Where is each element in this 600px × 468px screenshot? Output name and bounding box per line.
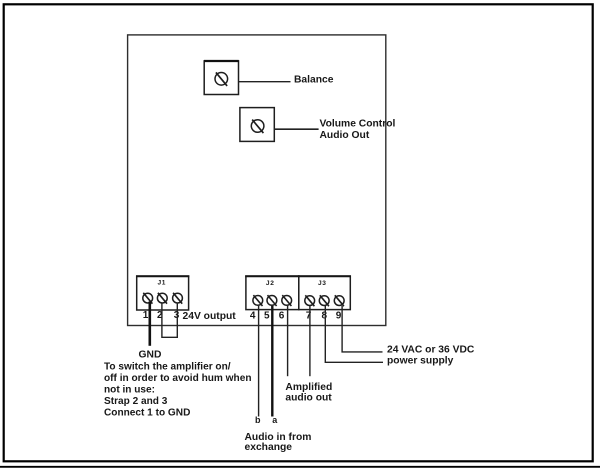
wire GND from terminal 1 — [149, 302, 152, 346]
potentiometer Balance — [204, 61, 239, 95]
terminal 1 — [143, 293, 153, 304]
svg-text:1: 1 — [143, 310, 149, 321]
svg-text:J2: J2 — [266, 280, 275, 287]
terminal block J2 — [246, 276, 299, 310]
svg-text:Strap 2 and 3: Strap 2 and 3 — [104, 396, 168, 407]
note text — [104, 361, 251, 418]
svg-text:7: 7 — [306, 311, 312, 322]
svg-text:GND: GND — [139, 349, 162, 360]
svg-text:24 VAC or 36 VDC: 24 VAC or 36 VDC — [387, 345, 475, 356]
svg-text:Balance: Balance — [294, 75, 334, 86]
svg-text:power supply: power supply — [387, 355, 454, 366]
wire from terminal 4 (b) — [258, 306, 260, 417]
bottom line — [0, 466, 600, 468]
svg-text:8: 8 — [322, 311, 328, 322]
svg-text:Connect 1 to GND: Connect 1 to GND — [104, 408, 190, 419]
svg-text:4: 4 — [250, 311, 256, 322]
svg-text:5: 5 — [264, 311, 270, 322]
terminal 4 — [253, 295, 263, 306]
wire from terminal 6 — [287, 306, 289, 377]
svg-text:Audio Out: Audio Out — [320, 130, 370, 141]
terminal 9 — [334, 295, 344, 306]
svg-text:J1: J1 — [158, 280, 167, 287]
svg-text:9: 9 — [336, 311, 342, 322]
svg-text:Volume Control: Volume Control — [320, 119, 396, 130]
wire from terminal 9 — [342, 306, 382, 352]
terminal 8 — [319, 295, 329, 306]
svg-text:off in order to avoid hum when: off in order to avoid hum when — [104, 373, 251, 384]
svg-text:b: b — [255, 415, 261, 425]
terminal 6 — [282, 295, 292, 306]
board outline — [128, 35, 386, 326]
terminal block J3 — [299, 276, 351, 310]
terminal block J1 — [137, 276, 189, 310]
wire from terminal 5 (a) — [271, 306, 273, 417]
wire from terminal 7 — [309, 306, 311, 376]
wire from terminal 8 — [325, 306, 383, 362]
wire leader to Balance label — [239, 81, 291, 83]
svg-text:not in use:: not in use: — [104, 385, 155, 396]
svg-text:Amplified: Amplified — [285, 382, 332, 393]
wire leader to Volume Control label — [274, 128, 318, 130]
potentiometer Volume Control — [240, 108, 274, 142]
svg-text:6: 6 — [279, 311, 285, 322]
terminal 5 — [267, 295, 277, 306]
terminal 3 — [173, 293, 183, 304]
svg-text:To switch the amplifier on/: To switch the amplifier on/ — [104, 361, 231, 372]
svg-text:exchange: exchange — [245, 442, 293, 453]
svg-text:audio out: audio out — [285, 393, 332, 404]
terminal 7 — [305, 295, 315, 306]
terminal 2 — [157, 293, 167, 304]
wire strap terminals 2-3 — [162, 303, 177, 338]
svg-text:24V output: 24V output — [183, 311, 237, 322]
svg-text:J3: J3 — [318, 280, 327, 287]
